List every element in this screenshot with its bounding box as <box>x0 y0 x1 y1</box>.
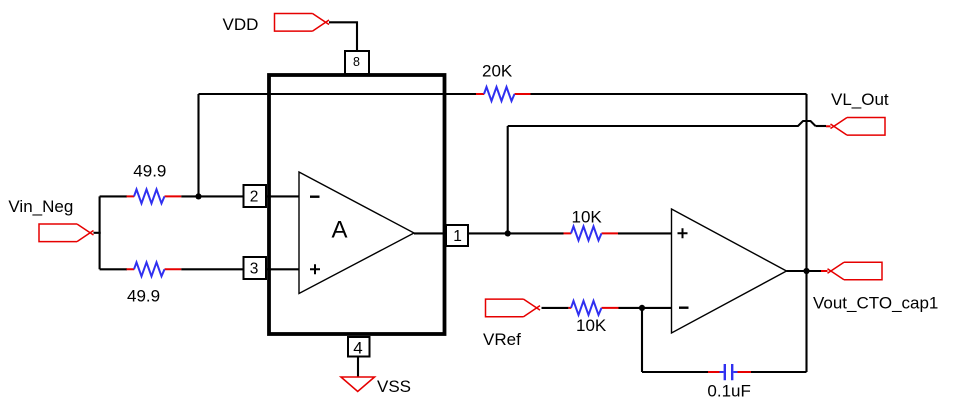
wire right vertical feedback <box>805 94 807 372</box>
svg-text:49.9: 49.9 <box>127 286 160 305</box>
svg-text:4: 4 <box>353 339 362 358</box>
resistor R5 10K lower <box>568 301 618 315</box>
svg-text:3: 3 <box>250 261 259 278</box>
resistor R3 20K <box>476 87 531 101</box>
svg-text:A: A <box>332 217 348 244</box>
node junction at feedback tap <box>505 230 511 236</box>
opamp block U1 box <box>269 75 445 334</box>
minus mark U1A <box>310 195 320 197</box>
op-amp U1A triangle <box>299 172 414 294</box>
wire pin 1 to 10K <box>468 232 564 234</box>
pin 8 box <box>345 51 369 74</box>
wire output red lead <box>821 270 828 272</box>
wire R2 to pin 3 <box>181 268 243 270</box>
wire top horizontal to 20K <box>199 93 477 95</box>
svg-text:0.1uF: 0.1uF <box>707 381 750 399</box>
wire R1 to pin 2 <box>181 195 243 197</box>
wire capacitor to output vertical <box>751 371 807 373</box>
port Vout_CTO_cap1 <box>828 262 883 280</box>
port VRef <box>486 299 541 317</box>
wire feedback to capacitor <box>642 371 708 373</box>
minus mark U2 <box>679 307 689 309</box>
wire top branch to resistor R1 <box>100 195 127 197</box>
capacitor C1 0.1uF <box>708 364 751 380</box>
resistor R2 49.9 <box>127 262 182 276</box>
wire junction down to feedback <box>641 308 643 372</box>
wire 20K to right corner <box>531 93 807 95</box>
plus mark U1A <box>310 264 320 274</box>
wire junction up <box>197 94 199 196</box>
pin 1 box <box>446 225 468 246</box>
port Vin_Neg <box>39 224 94 242</box>
wire hop over vertical <box>798 121 816 126</box>
svg-text:VDD: VDD <box>223 15 259 34</box>
wire op-amp out to pin 1 <box>414 232 446 234</box>
svg-text:1: 1 <box>453 228 462 245</box>
svg-text:10K: 10K <box>576 316 607 335</box>
svg-text:Vin_Neg: Vin_Neg <box>8 197 73 216</box>
svg-text:49.9: 49.9 <box>133 161 166 180</box>
resistor R1 49.9 <box>127 189 182 203</box>
ground VSS symbol <box>341 377 375 392</box>
svg-text:VL_Out: VL_Out <box>831 90 889 109</box>
wire Vin_Neg to split <box>94 232 101 234</box>
node junction top branch <box>195 193 201 199</box>
port VL_Out <box>831 118 886 136</box>
node junction output <box>803 268 809 274</box>
wire 10K to op-amp U2 plus <box>618 232 672 234</box>
svg-text:8: 8 <box>353 55 360 69</box>
wire pin 2 to op-amp <box>266 195 299 197</box>
svg-text:10K: 10K <box>572 208 603 227</box>
wire U2 output <box>787 270 823 272</box>
wire VL_Out horizontal <box>508 125 799 127</box>
wire split vertical <box>99 196 101 269</box>
svg-text:20K: 20K <box>482 61 513 80</box>
wire red lead VL_Out <box>826 125 831 127</box>
svg-text:VRef: VRef <box>483 330 521 349</box>
wire pin 3 to op-amp <box>266 268 299 270</box>
plus mark U2 <box>678 228 688 238</box>
pin 2 box <box>244 185 267 207</box>
op-amp U2 triangle <box>672 209 787 333</box>
wire bottom branch to resistor R2 <box>100 268 127 270</box>
svg-text:VSS: VSS <box>377 377 411 396</box>
port VDD <box>275 13 330 31</box>
wire tap vertical <box>507 126 509 233</box>
pin 4 box <box>348 337 370 358</box>
wire VDD to pin 8 <box>329 22 357 51</box>
resistor R4 10K upper <box>564 226 619 240</box>
pin 3 box <box>244 257 267 279</box>
wire pin 4 to VSS <box>357 357 359 378</box>
node junction minus input <box>639 305 645 311</box>
svg-text:Vout_CTO_cap1: Vout_CTO_cap1 <box>813 294 938 313</box>
wire VRef to 10K <box>542 307 569 309</box>
wire hop to VL_Out port <box>816 125 827 127</box>
wire 10K to op-amp U2 minus <box>619 307 672 309</box>
svg-text:2: 2 <box>250 189 259 206</box>
